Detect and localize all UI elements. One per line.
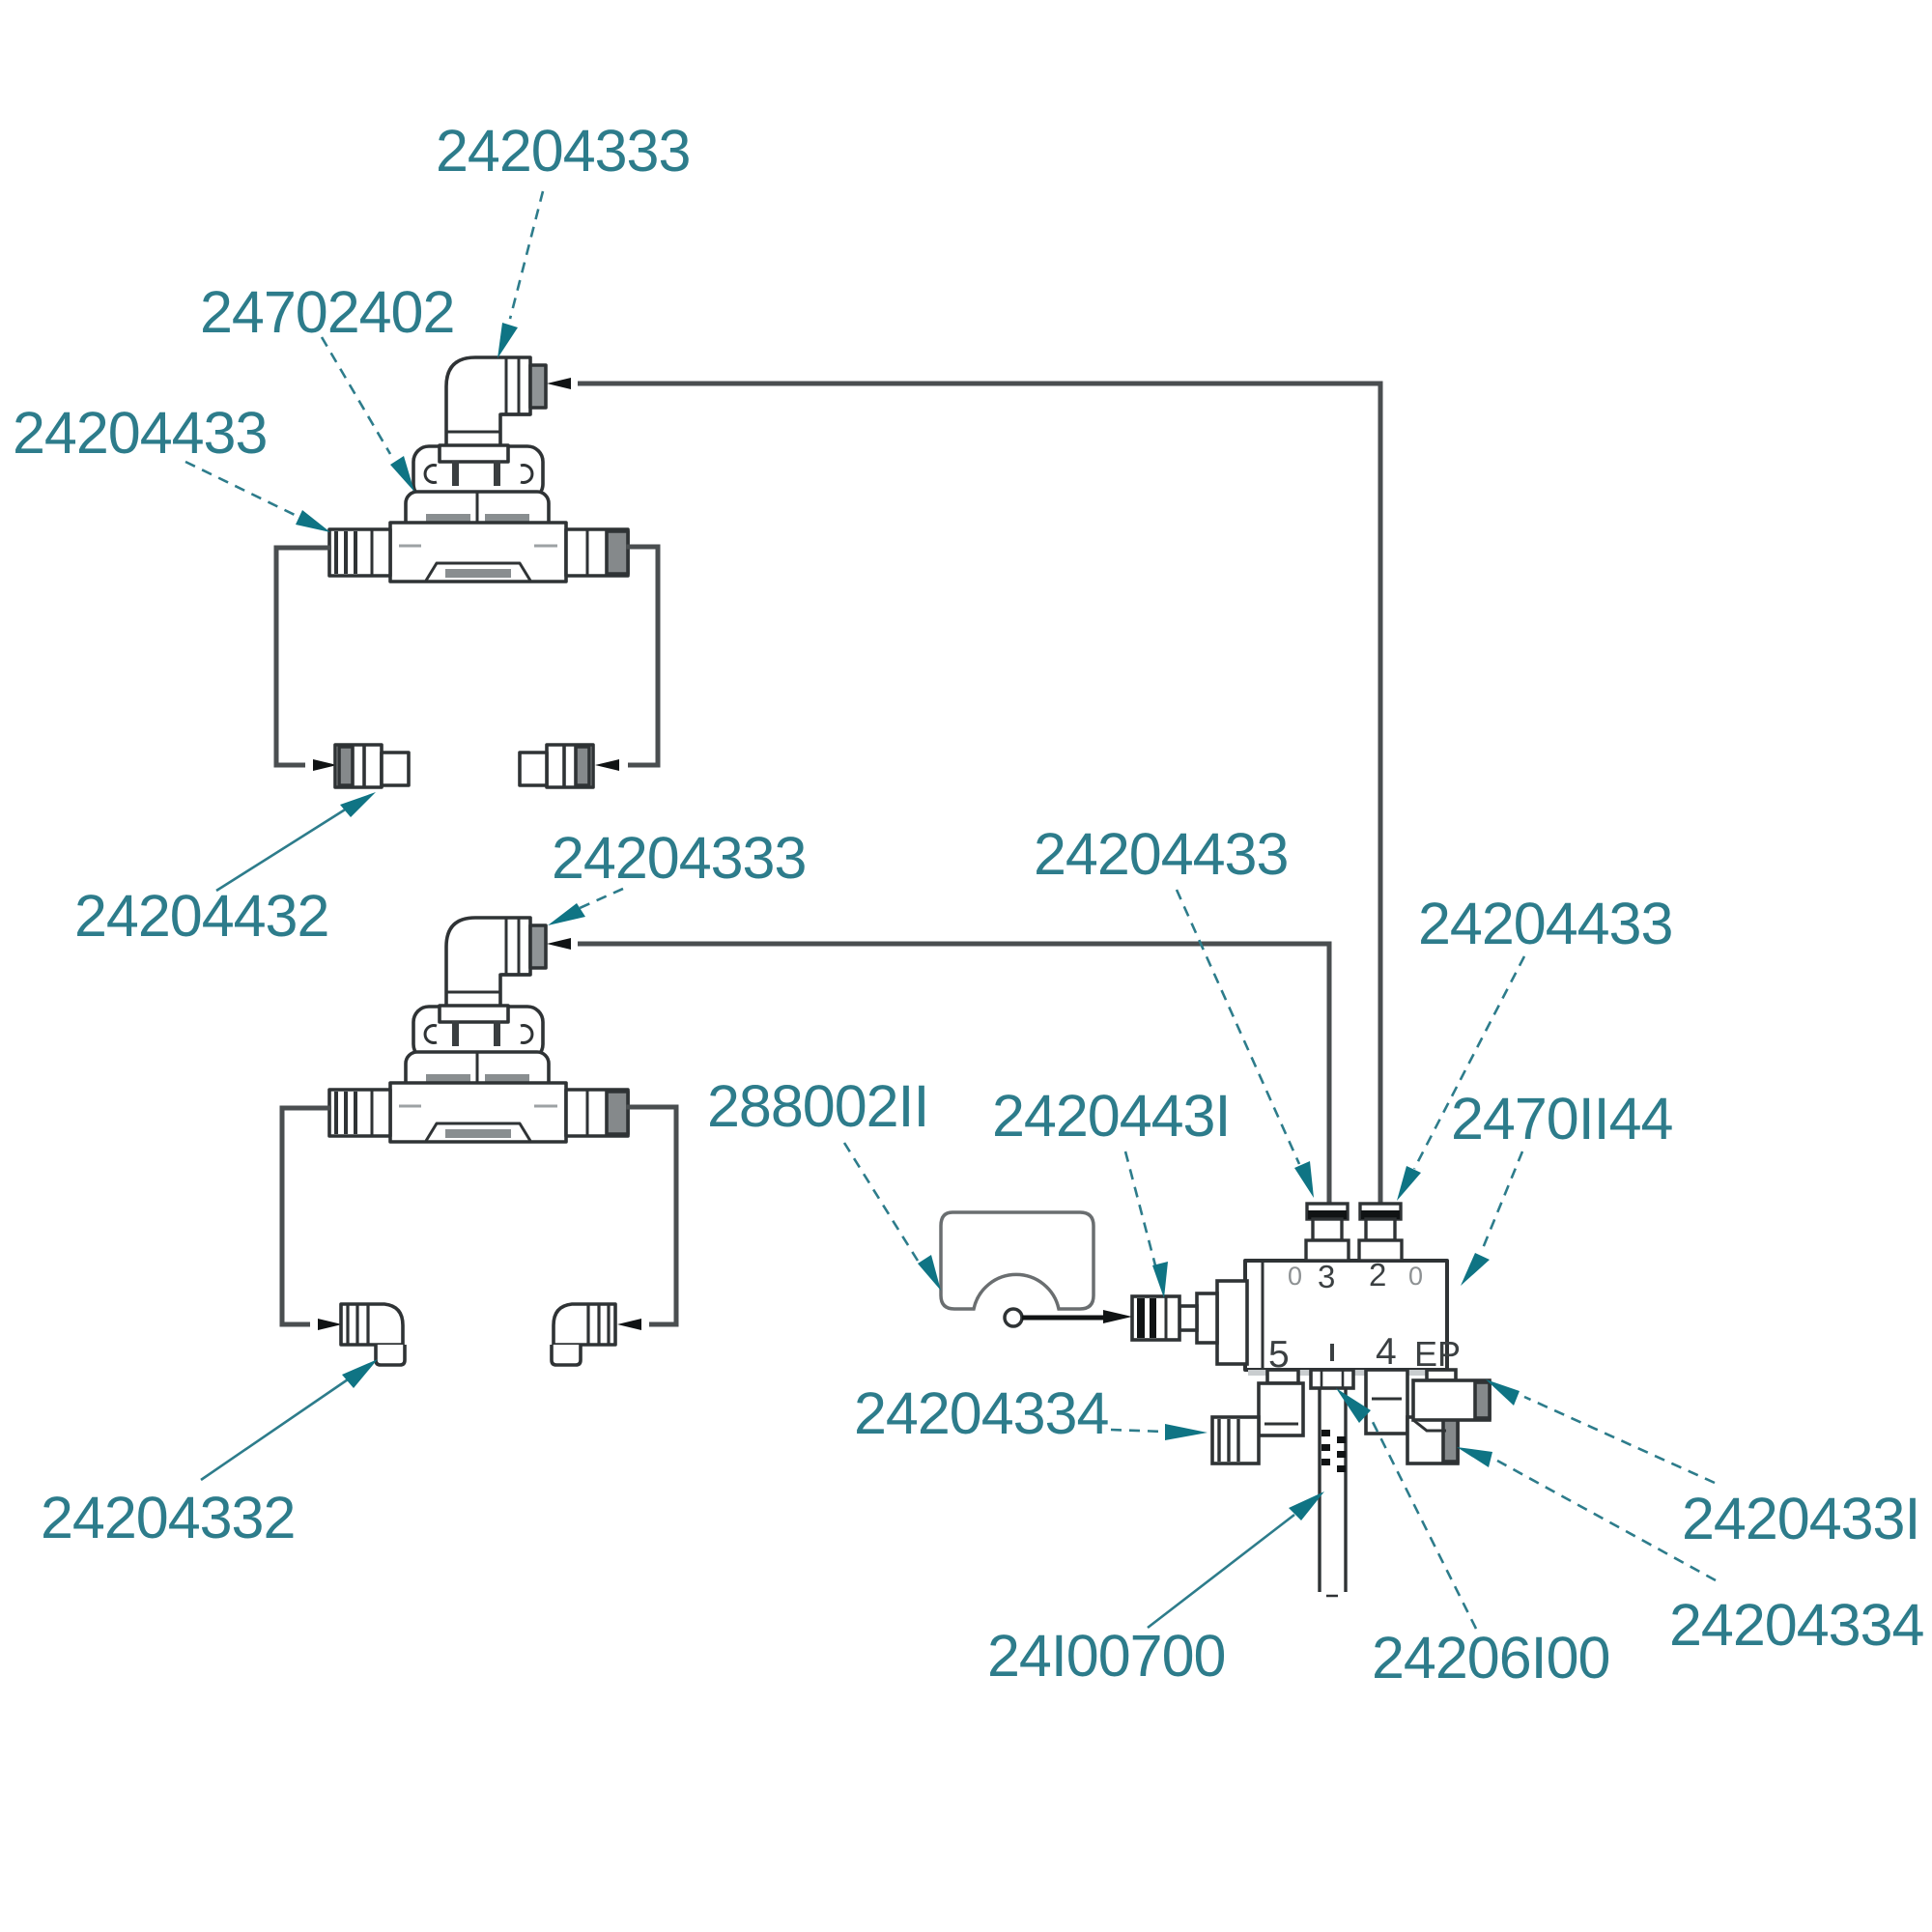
wire loop under valve2 (right run) (626, 1107, 676, 1324)
svg-text:EP: EP (1414, 1334, 1461, 1374)
leader to manifold right top fitting (1414, 956, 1524, 1169)
clip pin circle (1005, 1309, 1022, 1326)
svg-text:24204433: 24204433 (13, 400, 267, 466)
elbow fitting (bottom-right of loop 2) (552, 1304, 615, 1365)
leader to EP elbow fitting (1524, 1397, 1715, 1483)
svg-text:24204334: 24204334 (1669, 1592, 1923, 1658)
top push-in fitting 24204433 (left, from valve2) (1306, 1204, 1349, 1261)
top push-in fitting 24204433 (right, from valve1) (1359, 1204, 1402, 1261)
svg-text:288002II: 288002II (707, 1073, 928, 1139)
wire loop under valve2 (left run) (282, 1108, 331, 1324)
svg-text:0: 0 (1288, 1262, 1302, 1291)
port 4 fitting 24204334 (bottom-right, straight) (1366, 1370, 1458, 1463)
leader to manifold left top fitting (1177, 890, 1299, 1164)
leader to retaining clip (844, 1143, 918, 1261)
svg-text:24204334: 24204334 (854, 1380, 1108, 1446)
svg-text:0: 0 (1408, 1262, 1423, 1291)
svg-text:2470II44: 2470II44 (1451, 1086, 1673, 1151)
manifold body 24701144 (1245, 1261, 1447, 1373)
pilot fitting 24204431 (left side of manifold) (1132, 1281, 1247, 1364)
leader to union fitting of loop 1 (216, 807, 350, 891)
svg-text:24204433: 24204433 (1418, 891, 1672, 956)
wire from valve2 elbow to manifold top fitting (578, 944, 1329, 1204)
wire from valve1 elbow to manifold top fitting (578, 384, 1380, 1204)
port 1 sleeve fitting 24206100 (1311, 1370, 1353, 1388)
leader to valve2 elbow (580, 889, 623, 908)
tube 24100700 (below port 1) (1320, 1389, 1346, 1596)
leader to manifold body (1481, 1151, 1522, 1253)
retaining clip 28800211 (941, 1212, 1094, 1309)
svg-text:24204433: 24204433 (1034, 821, 1288, 887)
svg-text:24204432: 24204432 (74, 883, 328, 949)
valve assembly (lower) with elbow 24204333 and port fittings (329, 918, 628, 1142)
svg-text:4: 4 (1376, 1331, 1397, 1373)
svg-text:24702402: 24702402 (200, 279, 454, 345)
wire loop under valve1 (right run) (626, 547, 658, 765)
leader to port 1 sleeve (1372, 1420, 1476, 1629)
svg-text:24204332: 24204332 (41, 1485, 295, 1550)
svg-text:24204333: 24204333 (436, 118, 690, 184)
leader to valve1 body (322, 337, 390, 454)
leader to tube (1148, 1515, 1294, 1628)
leader to valve1 left fitting (185, 462, 295, 515)
union fitting (bottom-right of loop 1) (520, 745, 593, 787)
manifold port markings (1268, 1257, 1461, 1376)
union fitting 24204432 (bottom-left of loop 1) (335, 745, 409, 787)
svg-text:2420433I: 2420433I (1682, 1486, 1919, 1551)
leader to port 5 elbow fitting (1111, 1430, 1164, 1432)
leader to valve1 elbow (510, 191, 543, 319)
elbow fitting 24204332 (bottom-left of loop 2) (341, 1304, 405, 1365)
svg-text:24I00700: 24I00700 (987, 1623, 1225, 1689)
leader to pilot fitting (1125, 1151, 1155, 1265)
svg-text:3: 3 (1318, 1259, 1335, 1294)
svg-text:24204333: 24204333 (552, 825, 806, 891)
leader to port 4 fitting (1497, 1461, 1716, 1580)
valve assembly 24702402 (upper) with elbow 24204333 and port fittings 24204433 (329, 357, 628, 582)
port 5 elbow fitting 24204334 (bottom-left of manifold) (1212, 1370, 1303, 1463)
svg-text:2420443I: 2420443I (992, 1083, 1230, 1149)
leader to loop2 elbow fitting (201, 1378, 351, 1480)
EP port elbow fitting 24204331 (right of manifold) (1413, 1370, 1490, 1431)
svg-text:24206I00: 24206I00 (1372, 1625, 1609, 1690)
black leader from clip to pilot fitting (1022, 1316, 1105, 1321)
wire loop under valve1 (left run) (276, 548, 331, 765)
